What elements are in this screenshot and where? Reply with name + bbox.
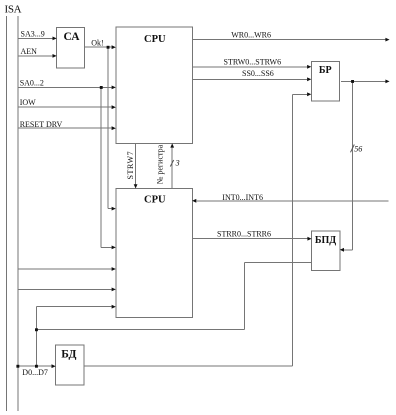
svg-text:STRW0...STRW6: STRW0...STRW6 [224,58,282,67]
svg-text:WR0...WR6: WR0...WR6 [231,31,271,40]
svg-text:RESET DRV: RESET DRV [20,120,63,129]
svg-text:3: 3 [175,158,180,167]
svg-text:БР: БР [319,65,332,76]
svg-text:AEN: AEN [21,47,38,56]
svg-text:STRR0...STRR6: STRR0...STRR6 [217,230,271,239]
svg-text:Ok!: Ok! [91,38,103,47]
svg-text:SA3...9: SA3...9 [21,30,45,39]
svg-text:INT0...INT6: INT0...INT6 [222,193,263,202]
svg-text:№ регистра: № регистра [155,144,164,184]
svg-text:CPU: CPU [144,195,166,206]
svg-text:БД: БД [61,349,76,361]
svg-text:IOW: IOW [20,98,36,107]
svg-text:SA0...2: SA0...2 [20,79,44,88]
svg-text:БПД: БПД [315,235,336,246]
svg-text:СА: СА [64,31,81,43]
svg-text:CPU: CPU [144,34,166,45]
svg-text:ISA: ISA [5,4,22,16]
svg-text:D0...D7: D0...D7 [22,368,48,377]
svg-text:56: 56 [354,144,362,153]
svg-text:SS0...SS6: SS0...SS6 [242,69,274,78]
svg-text:STRW7: STRW7 [126,151,135,180]
